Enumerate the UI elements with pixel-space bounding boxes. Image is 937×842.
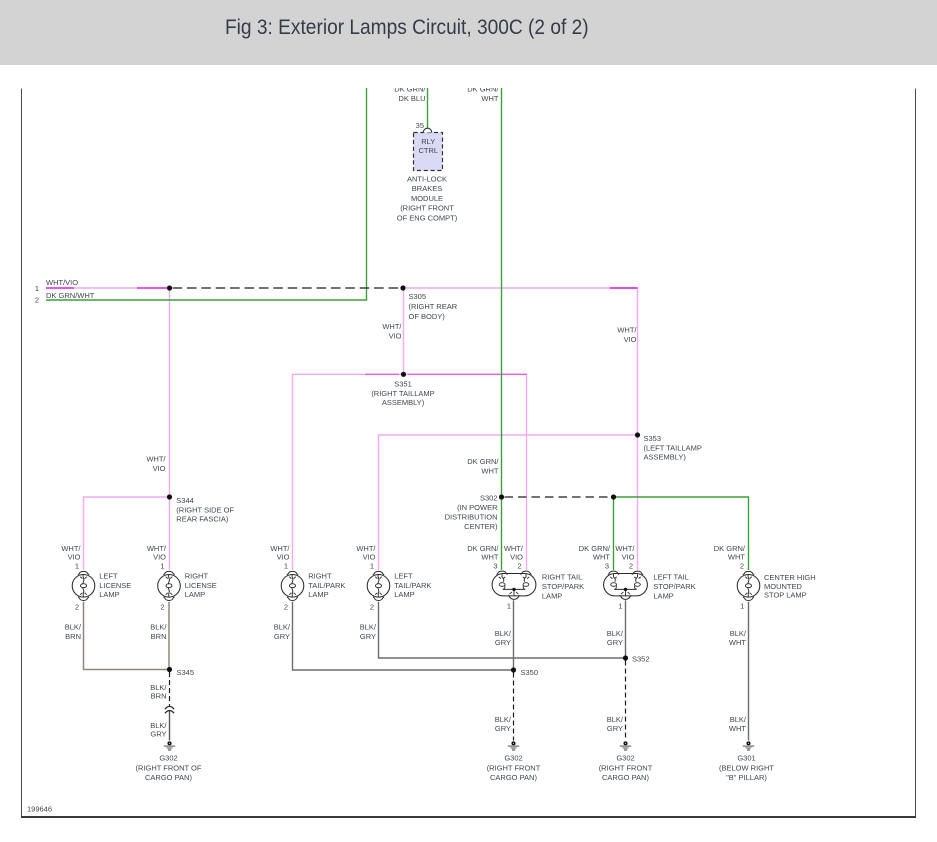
svg-text:BRN: BRN <box>151 692 167 701</box>
svg-text:LEFT: LEFT <box>99 572 118 581</box>
svg-text:VIO: VIO <box>510 552 523 561</box>
svg-text:TAIL/PARK: TAIL/PARK <box>394 581 431 590</box>
svg-text:ANTI-LOCK: ANTI-LOCK <box>407 174 447 183</box>
svg-text:VIO: VIO <box>277 552 290 561</box>
svg-text:BLK/: BLK/ <box>150 721 167 730</box>
svg-text:(IN POWER: (IN POWER <box>457 503 498 512</box>
svg-text:GRY: GRY <box>495 724 511 733</box>
svg-text:(LEFT TAILLAMP: (LEFT TAILLAMP <box>644 443 702 452</box>
svg-text:LAMP: LAMP <box>542 592 562 601</box>
svg-text:STOP/PARK: STOP/PARK <box>542 582 584 591</box>
svg-text:BLK/: BLK/ <box>150 683 167 692</box>
svg-text:LICENSE: LICENSE <box>185 581 217 590</box>
svg-text:VIO: VIO <box>624 335 637 344</box>
svg-text:(RIGHT FRONT: (RIGHT FRONT <box>599 763 653 772</box>
svg-text:RIGHT: RIGHT <box>185 572 209 581</box>
svg-text:2: 2 <box>629 562 633 571</box>
svg-text:(RIGHT FRONT: (RIGHT FRONT <box>400 204 454 213</box>
svg-text:1: 1 <box>740 602 744 611</box>
svg-text:LAMP: LAMP <box>185 590 205 599</box>
svg-text:LEFT TAIL: LEFT TAIL <box>653 573 688 582</box>
svg-text:(RIGHT SIDE OF: (RIGHT SIDE OF <box>176 505 234 514</box>
svg-text:CTRL: CTRL <box>419 146 439 155</box>
svg-text:BLK/: BLK/ <box>495 715 512 724</box>
svg-text:WHT: WHT <box>481 467 498 476</box>
svg-text:2: 2 <box>740 562 744 571</box>
svg-text:(RIGHT FRONT: (RIGHT FRONT <box>487 763 541 772</box>
svg-text:2: 2 <box>160 603 164 612</box>
svg-text:DK GRN/: DK GRN/ <box>467 84 499 93</box>
svg-text:WHT: WHT <box>593 552 610 561</box>
svg-text:WHT/: WHT/ <box>617 326 637 335</box>
svg-text:2: 2 <box>370 603 374 612</box>
svg-text:RIGHT TAIL: RIGHT TAIL <box>542 573 582 582</box>
svg-text:VIO: VIO <box>622 552 635 561</box>
svg-text:BRAKES: BRAKES <box>412 184 442 193</box>
svg-text:GRY: GRY <box>607 724 623 733</box>
svg-text:VIO: VIO <box>363 552 376 561</box>
svg-text:1: 1 <box>75 562 79 571</box>
svg-text:35: 35 <box>416 121 424 130</box>
svg-text:(RIGHT FRONT OF: (RIGHT FRONT OF <box>136 763 202 772</box>
svg-text:1: 1 <box>507 602 511 611</box>
svg-text:BLK/: BLK/ <box>607 715 624 724</box>
svg-text:S345: S345 <box>177 668 195 677</box>
svg-text:CARGO PAN): CARGO PAN) <box>145 773 192 782</box>
svg-text:S344: S344 <box>176 496 194 505</box>
svg-text:STOP LAMP: STOP LAMP <box>764 590 807 599</box>
svg-text:BLK/: BLK/ <box>65 623 82 632</box>
svg-text:OF BODY): OF BODY) <box>409 312 446 321</box>
svg-text:BLK/: BLK/ <box>607 629 624 638</box>
svg-text:WHT: WHT <box>729 638 746 647</box>
svg-text:G302: G302 <box>504 754 522 763</box>
svg-text:DISTRIBUTION: DISTRIBUTION <box>445 512 498 521</box>
svg-text:G302: G302 <box>159 754 177 763</box>
svg-text:WHT/VIO: WHT/VIO <box>46 278 78 287</box>
svg-text:1: 1 <box>160 562 164 571</box>
svg-text:WHT: WHT <box>481 94 498 103</box>
svg-text:1: 1 <box>35 284 39 293</box>
svg-text:LICENSE: LICENSE <box>99 581 131 590</box>
svg-text:WHT: WHT <box>481 552 498 561</box>
svg-text:VIO: VIO <box>153 464 166 473</box>
svg-text:GRY: GRY <box>274 632 290 641</box>
svg-text:BLK/: BLK/ <box>150 623 167 632</box>
svg-text:BLK/: BLK/ <box>360 623 377 632</box>
svg-text:LAMP: LAMP <box>653 592 673 601</box>
svg-text:RIGHT: RIGHT <box>308 572 332 581</box>
svg-text:GRY: GRY <box>360 632 376 641</box>
svg-text:BLK/: BLK/ <box>274 623 291 632</box>
svg-text:LAMP: LAMP <box>394 590 414 599</box>
svg-text:WHT/: WHT/ <box>382 322 402 331</box>
svg-text:S350: S350 <box>521 668 539 677</box>
svg-text:2: 2 <box>35 296 39 305</box>
svg-text:GRY: GRY <box>150 730 166 739</box>
svg-text:2: 2 <box>284 603 288 612</box>
svg-text:VIO: VIO <box>68 552 81 561</box>
svg-text:CARGO PAN): CARGO PAN) <box>490 773 537 782</box>
svg-text:WHT: WHT <box>728 552 745 561</box>
svg-text:BRN: BRN <box>151 632 167 641</box>
svg-text:GRY: GRY <box>607 638 623 647</box>
svg-text:(BELOW RIGHT: (BELOW RIGHT <box>719 763 774 772</box>
svg-text:BLK/: BLK/ <box>730 629 747 638</box>
svg-text:TAIL/PARK: TAIL/PARK <box>308 581 345 590</box>
svg-text:GRY: GRY <box>495 638 511 647</box>
svg-text:1: 1 <box>370 562 374 571</box>
svg-text:(RIGHT REAR: (RIGHT REAR <box>409 302 458 311</box>
svg-text:S302: S302 <box>480 493 498 502</box>
svg-text:DK GRN/WHT: DK GRN/WHT <box>46 291 95 300</box>
svg-text:ASSEMBLY): ASSEMBLY) <box>382 398 425 407</box>
svg-text:2: 2 <box>517 562 521 571</box>
svg-text:BLK/: BLK/ <box>730 715 747 724</box>
svg-text:1: 1 <box>618 602 622 611</box>
svg-text:S353: S353 <box>644 434 662 443</box>
svg-text:VIO: VIO <box>389 331 402 340</box>
svg-text:2: 2 <box>75 603 79 612</box>
svg-text:LEFT: LEFT <box>394 572 413 581</box>
svg-text:CARGO PAN): CARGO PAN) <box>602 773 649 782</box>
svg-text:REAR FASCIA): REAR FASCIA) <box>176 515 229 524</box>
svg-text:WHT/: WHT/ <box>146 454 166 463</box>
svg-text:3: 3 <box>605 562 609 571</box>
svg-text:"B" PILLAR): "B" PILLAR) <box>726 773 767 782</box>
svg-text:DK BLU: DK BLU <box>398 94 425 103</box>
svg-text:G301: G301 <box>737 754 755 763</box>
svg-text:S351: S351 <box>394 380 412 389</box>
svg-text:S352: S352 <box>632 655 650 664</box>
svg-text:(RIGHT TAILLAMP: (RIGHT TAILLAMP <box>371 389 434 398</box>
svg-text:1: 1 <box>284 562 288 571</box>
svg-text:199646: 199646 <box>27 805 52 814</box>
svg-text:WHT: WHT <box>729 724 746 733</box>
svg-text:CENTER HIGH: CENTER HIGH <box>764 573 816 582</box>
svg-text:RLY: RLY <box>421 137 435 146</box>
svg-text:S305: S305 <box>409 292 427 301</box>
svg-text:STOP/PARK: STOP/PARK <box>653 582 695 591</box>
svg-text:BRN: BRN <box>65 632 81 641</box>
svg-text:BLK/: BLK/ <box>495 629 512 638</box>
svg-text:G302: G302 <box>616 754 634 763</box>
svg-text:CENTER): CENTER) <box>464 522 498 531</box>
svg-text:DK GRN/: DK GRN/ <box>394 84 426 93</box>
svg-text:3: 3 <box>493 562 497 571</box>
svg-text:ASSEMBLY): ASSEMBLY) <box>644 453 687 462</box>
svg-text:LAMP: LAMP <box>99 590 119 599</box>
svg-text:DK GRN/: DK GRN/ <box>467 457 499 466</box>
svg-text:VIO: VIO <box>153 552 166 561</box>
svg-text:MODULE: MODULE <box>411 194 443 203</box>
svg-text:OF ENG COMPT): OF ENG COMPT) <box>397 214 458 223</box>
svg-text:LAMP: LAMP <box>308 590 328 599</box>
